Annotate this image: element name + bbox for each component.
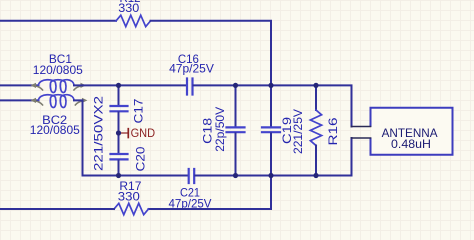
svg-text:330: 330: [118, 189, 140, 203]
junction: C18 branch on HF rail: [233, 83, 238, 88]
wire: C18 to ground rail: [235, 133, 237, 175]
capacitor C16 47p/25V (series, horizontal): [169, 52, 214, 95]
ferrite bead BC1 120/0805: [31, 52, 87, 93]
svg-text:120/0805: 120/0805: [33, 63, 83, 77]
wire: C19 to ground rail: [270, 133, 272, 175]
wire: R17 to left edge: [0, 208, 114, 210]
antenna part body ANTENNA 0.48uH: [371, 108, 453, 155]
wire: HF rail down to C17: [118, 85, 120, 105]
junction: C19/top-resistor on HF rail: [268, 83, 273, 88]
wire: C21 to antenna pin 2 riser: [195, 138, 351, 176]
wire: C17 to C20 through GND tap: [118, 112, 120, 153]
junction: C19/bottom on ground rail: [268, 173, 273, 178]
svg-text:R16: R16: [326, 117, 340, 145]
capacitor C21 47p/25V (series, horizontal): [169, 169, 212, 210]
svg-text:0.48uH: 0.48uH: [391, 137, 431, 151]
wire: HF rail down to C18: [235, 85, 237, 126]
wire: top resistor to corner, down to HF rail: [151, 21, 272, 86]
capacitor C17 (part of 221/50VX2 pair): [111, 98, 146, 123]
junction: C18 on ground rail: [233, 173, 238, 178]
wire: ground rail down to bottom return: [149, 176, 272, 210]
svg-text:221/50VX2: 221/50VX2: [92, 96, 106, 171]
junction: C20 on ground rail: [116, 173, 121, 178]
resistor R12 (designator cut at top edge) value 330: [116, 0, 151, 27]
junction: R16 on HF rail: [313, 83, 318, 88]
pin 1 of antenna: [352, 126, 371, 128]
wire: left input to BC2: [0, 99, 39, 101]
capacitor C18 22p/50V: [201, 107, 245, 152]
wire: left input to top resistor: [0, 20, 116, 22]
wire: C20 to ground rail: [118, 161, 120, 176]
svg-text:47p/25V: 47p/25V: [169, 62, 214, 76]
svg-text:GND: GND: [131, 128, 156, 140]
wire: BC2 output down to ground rail: [74, 100, 83, 175]
wire: C16 to antenna corner (rail y=85): [194, 85, 352, 126]
junction: R16 on ground rail: [313, 173, 318, 178]
wire: ground rail (BC2 corner to C21): [83, 175, 188, 177]
wire: BC1 to C16 left plate (rail y=85): [74, 84, 186, 86]
wire: left input to BC1: [0, 84, 39, 86]
resistor R16: [310, 110, 340, 146]
svg-text:C20: C20: [134, 146, 148, 171]
svg-text:120/0805: 120/0805: [30, 123, 80, 137]
resistor R17 330: [114, 179, 149, 215]
svg-text:C17: C17: [132, 98, 146, 123]
capacitor C20 (part of 221/50VX2 pair): [111, 146, 148, 171]
wire: HF rail down to C19: [270, 85, 272, 126]
power port GND: [119, 128, 155, 140]
svg-text:22p/50V: 22p/50V: [213, 107, 227, 152]
junction: GND tap on C17/C20 branch: [116, 130, 121, 135]
ferrite bead BC2 120/0805: [30, 95, 88, 137]
capacitor C19 221/25V: [262, 109, 305, 154]
pin 2 of antenna: [352, 137, 371, 139]
wire: R16 to ground rail: [315, 146, 317, 176]
svg-text:221/25V: 221/25V: [291, 109, 305, 154]
wire: HF rail down to R16: [315, 85, 317, 110]
junction: C17 branch on HF rail: [116, 83, 121, 88]
svg-text:330: 330: [118, 1, 139, 15]
